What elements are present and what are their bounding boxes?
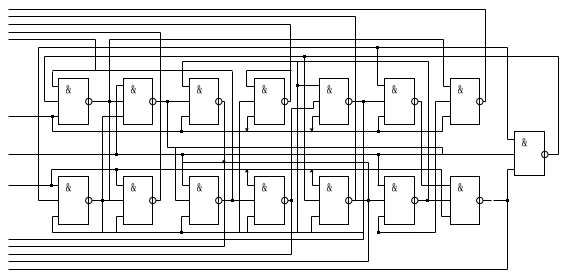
tap wire stub end (223, 160, 226, 164)
U11 output inversion bubble (282, 197, 288, 203)
U6 output inversion bubble (412, 98, 418, 104)
wire U10.C drop to W4 (181, 217, 183, 233)
wire U3 output drop to B2 (224, 102, 226, 247)
wire U11 output riser to U5.B and B3 (291, 109, 293, 255)
junction U2 output (166, 100, 169, 103)
wire U12.C drop to W4 (311, 217, 313, 233)
junction U14 output (506, 199, 509, 202)
NAND gate U14 (451, 177, 480, 225)
wire U13 output to U14.B (418, 200, 451, 202)
wire U12 output to I2 link (183, 162, 369, 164)
wire U14 output segment (483, 200, 492, 202)
wire W3 drop to U11.A (247, 170, 249, 186)
wire N7 bus drop to U1.B (44, 57, 46, 102)
pin U5.B (314, 101, 320, 103)
wire U1 output to U2.B (93, 101, 124, 103)
pin U8.C (53, 216, 59, 218)
wire U2.A hook to I2 (116, 86, 118, 155)
wire I3 riser to W3 (51, 170, 53, 186)
pin U10.C (182, 216, 190, 218)
net N1 top bus (U7 output to left edge) (9, 9, 486, 11)
U12 output inversion bubble (346, 197, 352, 203)
wire U6 output drop to U14.A (421, 102, 423, 186)
wire U4.A hook (246, 71, 248, 87)
wire W4 row2 C-input distribution (53, 232, 364, 234)
wire U15 output riser to N7 (558, 57, 560, 155)
NAND gate U12 (320, 177, 349, 225)
pin U1.A (53, 86, 59, 88)
wire U2 output drop (167, 102, 169, 148)
pin U13.C (379, 216, 385, 218)
NAND gate U1 (59, 79, 89, 125)
U10 output inversion bubble (216, 197, 222, 203)
pin U12.B (305, 200, 320, 202)
U2 output inversion bubble (150, 98, 156, 104)
wire U7.C hook to W1 (442, 117, 444, 132)
wire W1 input I1 distribution (53, 131, 443, 133)
wire U5 output drop to B1 (363, 102, 365, 240)
wire U5.A riser (297, 62, 299, 233)
junction U11 output (290, 199, 293, 202)
junction W4/U10.C (180, 231, 183, 234)
pin U4.B (240, 101, 255, 103)
pin U10.A (183, 185, 190, 187)
wire U9.C drop to W4 (116, 217, 118, 233)
pin U7.B (436, 101, 451, 103)
NAND gate U6 (385, 79, 415, 125)
wire W4 row2 C-input distribution segment 2 (379, 232, 436, 234)
junction W1/U6.C (377, 130, 380, 133)
wire U15 output (548, 154, 559, 156)
net B3 bottom bus (U11 output to left edge) (9, 254, 292, 256)
wire N2 bus drop to U12 output (355, 17, 357, 201)
pin U12.A (313, 185, 320, 187)
wire N5b drop to U7.A (443, 40, 445, 87)
wire U6 output (418, 101, 422, 103)
NAND gate U10 (190, 177, 219, 225)
pin U7.C (443, 116, 451, 118)
U3 output inversion bubble (216, 98, 222, 104)
U9 output inversion bubble (150, 197, 156, 203)
NAND gate U13 (385, 177, 415, 225)
junction U13 output (426, 199, 429, 202)
pin U4.A (247, 86, 255, 88)
wire U14 output segment (494, 200, 508, 202)
wire U2 output drop to U10.B (175, 148, 177, 201)
NAND gate U2 (124, 79, 153, 125)
U7 output inversion bubble (477, 98, 483, 104)
U5 output inversion bubble (346, 98, 352, 104)
wire U13 output to U3.A and U5.A (183, 61, 429, 63)
U1 output inversion bubble (86, 98, 92, 104)
wire U4.C hook to W1 (247, 117, 249, 132)
wire W4 riser to U4.B (239, 102, 241, 233)
junction U5.A (296, 84, 299, 87)
input line I1 to U1.C (9, 116, 59, 118)
pin U3.C (182, 116, 190, 118)
tap U4.C on W1 (245, 128, 249, 131)
wire N3 to U4.A (247, 70, 292, 72)
pin U5.A (298, 85, 320, 87)
wire U8 output to U9.B (93, 200, 124, 202)
pin U6.C (379, 116, 385, 118)
wire U5.B riser (313, 102, 315, 109)
net B4 bottom bus (U12 output to left edge) (9, 261, 369, 263)
wire U3.C hook to W1 (181, 117, 183, 132)
junction W3/U9.A (115, 168, 118, 171)
NAND gate U11 (255, 177, 285, 225)
pin U14.C (442, 216, 451, 218)
wire U5 output to U6.B (352, 101, 385, 103)
wire U10 output riser (232, 72, 234, 201)
net N5a top bus segment (9, 39, 96, 41)
pin U5.C (313, 116, 320, 118)
junction U10 output (231, 199, 234, 202)
NAND gate U4 (255, 79, 285, 125)
wire U11.C drop to W4 (247, 217, 249, 233)
NAND gate U9 (124, 177, 153, 225)
net N4 top bus (U9 output to left edge) (9, 32, 161, 34)
wire U6.C hook to W1 (378, 117, 380, 132)
junction U5 output (362, 100, 365, 103)
pin U2.A (117, 85, 124, 87)
wire N5b drop / U1 output down to U9 input (109, 40, 111, 201)
tap U12.A on W3 (310, 169, 314, 172)
pin U3.A (183, 86, 190, 88)
net N7 top bus (U15 output feedback) (45, 56, 559, 58)
wire U12 output to U13.B (352, 200, 385, 202)
wire U3.A hook (182, 62, 184, 87)
NAND gate U8 (59, 177, 89, 225)
net N5b top bus segment (U1 output to U7 input A) (110, 39, 444, 41)
wire I1 drop to W1 (52, 117, 54, 132)
U13 output inversion bubble (412, 197, 418, 203)
wire W3 drop to U9.A (116, 170, 118, 186)
wire U7.B riser from W4 (435, 102, 437, 233)
junction U1 output (108, 100, 111, 103)
wire U7 output riser to N1 (485, 10, 487, 102)
pin U7.A (444, 86, 451, 88)
tap U11.A on W3 (245, 169, 249, 172)
wire U10 output to U11.B (222, 200, 255, 202)
wire W2 end drop to I2 (442, 148, 444, 155)
wire U15.C / U14 output / B5 link (507, 170, 509, 270)
NAND gate U5 (320, 79, 349, 125)
junction U12 output riser (367, 199, 370, 202)
NAND gate U3 (190, 79, 219, 125)
wire U4 output (288, 101, 291, 103)
U8 output inversion bubble (86, 197, 92, 203)
net N2 top bus (U12 output to left edge) (9, 16, 356, 18)
pin U11.A (248, 185, 255, 187)
wire N5a drop (95, 40, 97, 71)
wire W3 drop to U14.C (441, 170, 443, 217)
pin U10.B (176, 200, 190, 202)
pin U2.C (103, 116, 124, 118)
pin U9.C (117, 216, 124, 218)
wire U8 output riser to U2.C and W4 (102, 117, 104, 233)
net N6 top bus (U14 output fanout) (39, 47, 508, 49)
wire U6 output to U14.A (422, 185, 451, 187)
wire I2 drop to U13.A (378, 155, 380, 186)
wire U13 output riser (428, 62, 430, 201)
net B1 bottom bus (U5 output to left edge) (9, 239, 364, 241)
net N3 top bus (U4 output to left edge) (9, 24, 291, 26)
junction I3/W3 riser (50, 184, 53, 187)
wire U5.B jog (292, 108, 314, 110)
pin U13.A (378, 185, 385, 187)
wire U2 output to U3.B (156, 101, 190, 103)
wire U8.C drop to W4 (52, 217, 54, 233)
wire W3 drop to U12.A (312, 170, 314, 186)
wire U13.C drop to W4 (378, 217, 380, 233)
junction I2 drop (181, 153, 184, 156)
pin U8.B (39, 200, 59, 202)
net B5 bottom bus (U14 output to left edge) (9, 269, 508, 271)
junction I1/W1 drop (51, 115, 54, 118)
wire U7 output (483, 101, 486, 103)
pin U12.C (312, 216, 320, 218)
NAND gate U7 (451, 79, 480, 125)
U15 output inversion bubble (542, 151, 548, 157)
net B2 bottom bus (U3 output to left edge) (9, 246, 225, 248)
junction W4/U13.C (377, 231, 380, 234)
junction W1/U3.C (180, 130, 183, 133)
U4 output inversion bubble (282, 98, 288, 104)
wire U3 output (222, 101, 225, 103)
junction N6 drop (376, 46, 379, 49)
junction U8 output (101, 199, 104, 202)
pin U11.C (248, 216, 255, 218)
pin U4.C (248, 116, 255, 118)
wire W2 U2 output distribution (168, 147, 443, 149)
wire W3 input I3 distribution (52, 169, 442, 171)
junction I2/U2.A (115, 153, 118, 156)
U14 output inversion bubble (477, 197, 483, 203)
pin U15.C (508, 169, 515, 171)
wire U12 output riser to B4 (368, 163, 370, 262)
wire N7 drop to U12.B (304, 57, 306, 201)
wire U10 output to U1.A (53, 70, 233, 72)
wire I2 drop to U10.A (182, 155, 184, 186)
wire U11 output (288, 200, 292, 202)
NAND gate U15 (515, 132, 545, 176)
input line I2 to U15.B (9, 154, 515, 156)
wire hook U1.A (52, 72, 54, 87)
wire N6 bus drop to U8.B (38, 48, 40, 201)
wire U9 output (156, 200, 161, 202)
pin U9.A (117, 185, 124, 187)
wire N6 drop to U6.A (377, 48, 379, 86)
wire N6 drop to U15.A (507, 48, 509, 140)
wire N4 bus drop to U9 output (160, 33, 162, 201)
junction N7 drop (303, 55, 306, 58)
wire N3 bus drop (290, 25, 292, 102)
pin U15.A (508, 139, 515, 141)
wire U5.C hook to W1 (312, 117, 314, 132)
input line I3 to U8.A (9, 185, 59, 187)
tap U5.C on W1 (310, 128, 314, 131)
junction I2 drop to U13.A (377, 153, 380, 156)
pin U6.A (378, 85, 385, 87)
pin U1.B (45, 101, 59, 103)
